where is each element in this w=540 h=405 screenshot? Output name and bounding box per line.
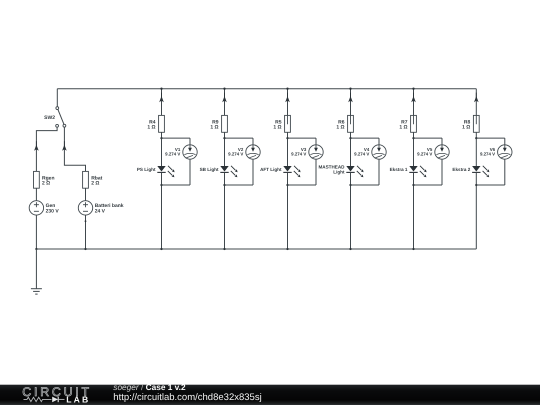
junction top bus branch 4 [349,88,351,90]
junction branch 3 upper parallel node [286,137,288,139]
current arrow battery branch [62,145,67,151]
node battery wire anchor [85,220,87,222]
wire branch 6 LED to bottom bus [475,173,477,249]
svg-text:24 V: 24 V [95,208,106,214]
current arrow branch 3 [285,96,290,102]
voltage source Gen 230V [29,201,59,215]
junction top bus branch 2 [223,88,225,90]
junction branch 2 upper parallel node [223,137,225,139]
wire branch 5 lower link to voltmeter [414,184,443,186]
wire branch 3 resistor to LED [287,132,289,166]
svg-text:230 V: 230 V [46,208,60,214]
svg-text:9.274 V: 9.274 V [291,152,306,157]
svg-text:9.274 V: 9.274 V [480,152,495,157]
svg-text:Ekstra 1: Ekstra 1 [390,167,408,172]
voltmeter V2 9.274 V [228,145,260,159]
wire branch 4 lower link to voltmeter [351,184,380,186]
wire voltmeter V1 top lead [189,138,191,145]
svg-text:AFT Light: AFT Light [260,167,282,172]
svg-text:9.274 V: 9.274 V [417,152,432,157]
resistor R4 [147,115,164,132]
wire branch 6 drop from top bus [475,89,477,116]
voltmeter V5 9.274 V [417,145,449,159]
junction bottom bus / ground stem [35,248,37,250]
junction branch 5 upper parallel node [412,137,414,139]
wire battery to ground bus [85,215,87,249]
svg-text:Ekstra 2: Ekstra 2 [452,167,470,172]
svg-text:soeger / Case 1 v.2: soeger / Case 1 v.2 [113,382,186,392]
current arrow branch 5 [411,96,416,102]
LED PS Light [137,166,175,178]
wire branch 4 drop from top bus [350,89,352,116]
wire branch 2 upper link to voltmeter [225,137,254,139]
svg-text:9.274 V: 9.274 V [165,152,180,157]
svg-text:1 Ω: 1 Ω [273,125,281,131]
current arrow branch 4 [348,96,353,102]
wire voltmeter V1 bottom lead [189,159,191,185]
junction branch 4 lower parallel node [349,184,351,186]
junction branch 6 lower parallel node [475,184,477,186]
wire branch 6 upper link to voltmeter [476,137,505,139]
wire voltmeter V5 bottom lead [441,159,443,185]
wire branch 3 drop from top bus [287,89,289,116]
junction branch 5 lower parallel node [412,184,414,186]
LED Ekstra 1 [390,166,427,178]
svg-text:1 Ω: 1 Ω [336,125,344,131]
resistor R8 [462,115,479,132]
wire branch 1 drop from top bus [161,89,163,116]
wire voltmeter V3 top lead [315,138,317,145]
switch SW2 [44,107,66,128]
wire ground stem [35,249,37,289]
wire branch 5 upper link to voltmeter [414,137,443,139]
resistor R7 [399,115,416,132]
wire branch 1 upper link to voltmeter [162,137,191,139]
junction branch 4 upper parallel node [349,137,351,139]
CircuitLab logo [22,385,92,405]
svg-text:1 Ω: 1 Ω [462,125,470,131]
voltage source Batteri bank 24V [78,201,124,215]
junction bottom bus branch 1 [160,248,162,250]
svg-text:LAB: LAB [66,395,90,405]
wire voltmeter V3 bottom lead [315,159,317,185]
wire switch right throw to Rbat branch [64,127,85,171]
svg-text:SW2: SW2 [44,115,55,121]
wire branch 5 resistor to LED [413,132,415,166]
junction branch 1 upper parallel node [160,137,162,139]
junction bottom bus branch 4 [349,248,351,250]
current arrow branch 6 [474,96,479,102]
wire switch left throw to Rgen branch [36,127,57,171]
svg-text:1 Ω: 1 Ω [399,125,407,131]
wire voltmeter V6 bottom lead [504,159,506,185]
wire branch 5 drop from top bus [413,89,415,116]
svg-text:Light: Light [333,170,345,175]
svg-text:1 Ω: 1 Ω [210,125,218,131]
LED AFT Light [260,166,301,178]
wire Rgen to Gen source [35,188,37,201]
junction bottom bus / battery branch [84,248,86,250]
wire voltmeter V6 top lead [504,138,506,145]
resistor Rbat [83,171,103,188]
wire top supply bus [57,88,476,90]
resistor R6 [336,115,353,132]
voltmeter V4 9.274 V [354,145,386,159]
wire branch 2 lower link to voltmeter [225,184,254,186]
wire branch 6 resistor to LED [475,132,477,166]
svg-text:2 Ω: 2 Ω [91,181,99,187]
junction branch 3 lower parallel node [286,184,288,186]
ground [31,289,42,294]
wire branch 4 upper link to voltmeter [351,137,380,139]
current arrow branch 1 [159,96,164,102]
junction branch 2 lower parallel node [223,184,225,186]
junction bottom bus branch 3 [286,248,288,250]
wire branch 2 drop from top bus [224,89,226,116]
LED Ekstra 2 [452,166,489,178]
current arrow branch 2 [222,96,227,102]
wire branch 4 LED to bottom bus [350,173,352,249]
wire branch 6 lower link to voltmeter [476,184,505,186]
voltmeter V1 9.274 V [165,145,197,159]
wire voltmeter V2 bottom lead [252,159,254,185]
voltmeter V6 9.274 V [480,145,512,159]
wire branch 3 lower link to voltmeter [288,184,317,186]
junction bottom bus branch 2 [223,248,225,250]
wire branch 3 upper link to voltmeter [288,137,317,139]
svg-text:PS Light: PS Light [137,167,156,172]
wire branch 2 LED to bottom bus [224,173,226,249]
svg-text:http://circuitlab.com/chd8e32x: http://circuitlab.com/chd8e32x835sj [113,392,261,403]
resistor R5 [273,115,290,132]
wire branch 3 LED to bottom bus [287,173,289,249]
wire branch 4 resistor to LED [350,132,352,166]
wire bottom return bus [36,248,476,250]
resistor R9 [210,115,227,132]
wire voltmeter V5 top lead [441,138,443,145]
wire voltmeter V2 top lead [252,138,254,145]
wire voltmeter V4 top lead [378,138,380,145]
wire switch feed from top bus [56,89,58,107]
wire voltmeter V4 bottom lead [378,159,380,185]
junction branch 6 upper parallel node [475,137,477,139]
junction top bus branch 1 [160,88,162,90]
resistor Rgen [34,171,55,188]
junction top bus branch 5 [412,88,414,90]
wire Rbat to battery source [85,188,87,201]
svg-text:1 Ω: 1 Ω [147,125,155,131]
svg-text:2 Ω: 2 Ω [42,181,50,187]
wire branch 1 lower link to voltmeter [162,184,191,186]
svg-text:9.274 V: 9.274 V [354,152,369,157]
voltmeter V3 9.274 V [291,145,323,159]
svg-text:SB Light: SB Light [200,167,219,172]
wire branch 2 resistor to LED [224,132,226,166]
wire branch 1 LED to bottom bus [161,173,163,249]
junction top bus branch 3 [286,88,288,90]
wire branch 5 LED to bottom bus [413,173,415,249]
LED SB Light [200,166,238,178]
junction bottom bus branch 5 [412,248,414,250]
wire Gen to ground bus [35,215,37,249]
current arrow generator branch [34,145,39,151]
LED MASTHEAD Light [318,165,363,178]
wire branch 1 resistor to LED [161,132,163,166]
svg-text:9.274 V: 9.274 V [228,152,243,157]
junction branch 1 lower parallel node [160,184,162,186]
